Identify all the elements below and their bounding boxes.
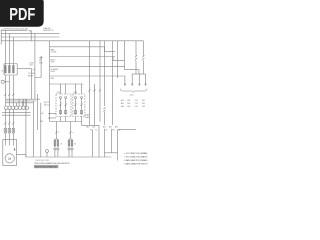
rung 3: [50, 65, 125, 67]
svg-text:B02: B02: [127, 103, 130, 105]
aux arrow stub 1: [49, 113, 56, 115]
feeder arrow 1 (from rung 4 elbow): [124, 76, 126, 84]
wire relay branch with up arrow: [35, 56, 41, 78]
wire v x112.5: [112, 41, 114, 125]
wire staircase z3: [125, 66, 139, 74]
svg-text:49: 49: [60, 144, 62, 146]
rung 1: [50, 46, 105, 48]
wire motor box link: [16, 155, 26, 157]
bus line L4 / control top rail: [1, 40, 143, 42]
node indicator lamp: [46, 150, 49, 153]
svg-text:KL: KL: [95, 130, 97, 132]
wire column A07: [92, 130, 94, 157]
svg-text:C01: C01: [135, 100, 138, 102]
relay 50/51 label: [30, 63, 34, 67]
svg-text:B03: B03: [127, 106, 130, 108]
brace: [120, 89, 147, 93]
svg-text:DEVICE 75: DEVICE 75: [43, 30, 54, 32]
motor enclosure box: [3, 140, 17, 166]
feeder arrow 3: [138, 74, 140, 84]
wire staircase z1: [105, 47, 116, 52]
contactor 1-49 contacts: [60, 97, 62, 99]
svg-text:B01: B01: [127, 100, 130, 102]
breaker pole C: [13, 66, 15, 73]
wire column KC: [104, 129, 106, 157]
column top labels: [90, 129, 121, 132]
aux device column text: [44, 101, 50, 106]
bus line L1: [1, 30, 31, 33]
feeder arrow 2: [131, 74, 133, 84]
feeder note text: [39, 57, 42, 64]
wire relay riser: [30, 69, 32, 100]
wire relay tick: [33, 69, 35, 71]
phase A to terminals: [4, 109, 6, 128]
phase A drop: [4, 30, 6, 65]
wire KA top link: [118, 129, 137, 131]
svg-text:52: 52: [1, 71, 3, 73]
svg-text:49: 49: [74, 144, 76, 146]
terminal labels row: [87, 126, 118, 129]
bus line L3: [1, 36, 59, 38]
svg-text:③ MAIN CAPACITOR (49MAIN): ③ MAIN CAPACITOR (49MAIN): [124, 159, 148, 162]
feeder table: [121, 99, 145, 108]
breaker 52 box: [4, 64, 17, 76]
wire feeder drop 1: [30, 30, 32, 41]
node LINE 44 label: [43, 28, 54, 32]
svg-text:4-16: 4-16: [40, 113, 43, 115]
terminal block A: [4, 128, 6, 133]
svg-text:CLOSE: CLOSE: [51, 52, 58, 54]
motor circle M: [5, 154, 14, 163]
heater pair 2: [68, 122, 76, 158]
wire v x117.5 upper: [117, 41, 119, 78]
wire staircase z2: [113, 57, 124, 61]
svg-text:④ MAIN CAPACITOR SWITCH: ④ MAIN CAPACITOR SWITCH: [124, 162, 149, 165]
svg-text:TO 4160V: TO 4160V: [28, 73, 36, 75]
contactor drops to bottom rail: [61, 117, 82, 122]
svg-text:① 49 CONTACTOR (49MAIN): ① 49 CONTACTOR (49MAIN): [124, 152, 148, 155]
CT wiring bundle: [6, 99, 40, 103]
CT lead vertical 3: [40, 103, 42, 157]
wire feeder drop 2 / relay feeder: [34, 33, 36, 99]
CT secondary lines: [2, 113, 31, 116]
svg-text:4-49: 4-49: [73, 92, 77, 94]
aux arrow stub 2: [49, 117, 56, 119]
wire v x143.3 with contact: [142, 41, 144, 74]
wire column KA: [117, 130, 119, 161]
heater pair 1: [54, 122, 62, 158]
CT circles row: [5, 106, 29, 109]
CT lead vertical 2: [32, 101, 34, 157]
svg-text:D03: D03: [142, 106, 145, 108]
phase A lower: [4, 75, 6, 106]
wire K bottom link: [105, 152, 118, 154]
phase B to terminals: [8, 109, 10, 128]
phase C drop: [12, 37, 14, 65]
svg-text:C03: C03: [135, 106, 138, 108]
PDF badge: [0, 0, 44, 27]
svg-text:4-16: 4-16: [40, 121, 43, 123]
rung labels: [51, 49, 59, 81]
CT bundle taps: [16, 99, 26, 106]
phase C lower: [12, 75, 14, 106]
contact slashes on columns: [89, 89, 101, 91]
wire PT tap: [4, 81, 9, 83]
svg-text:a: a: [58, 132, 59, 134]
phase C to terminals: [12, 109, 14, 128]
bus labels (tick text above top bus line): [2, 28, 28, 31]
phase B drop: [8, 33, 10, 65]
rung 4: [50, 75, 125, 77]
node PT circle: [1, 80, 4, 83]
wire aux vertical: [37, 94, 39, 130]
wire bottom rail with jog: [50, 122, 100, 158]
svg-text:D01: D01: [142, 100, 145, 102]
terminal block B: [8, 128, 10, 133]
svg-text:a: a: [72, 132, 73, 134]
contactor K1 drops: [61, 84, 82, 94]
contactor 1-49 dashed box: [56, 94, 71, 117]
svg-text:4-16: 4-16: [39, 57, 42, 59]
wire v x94.5: [94, 84, 96, 125]
svg-text:METER A-3 41MV: METER A-3 41MV: [36, 159, 50, 162]
CT leads to relays: vertical 1: [25, 99, 27, 157]
wire breaker to relay: [17, 68, 31, 70]
svg-text:M: M: [8, 157, 11, 161]
wire v x89.5: [89, 41, 91, 125]
wire v x104.5 with break: [104, 41, 106, 125]
svg-text:TYPICAL CONTROL SCHEMATIC FOR: TYPICAL CONTROL SCHEMATIC FOR A 4.16KV 2…: [34, 162, 70, 165]
svg-text:BUS: BUS: [39, 62, 42, 64]
left bus riser: [0, 30, 2, 45]
phase B lower: [8, 75, 10, 106]
wire column KB: [111, 129, 113, 153]
svg-text:PDF: PDF: [9, 4, 35, 24]
wire ground rail: [26, 156, 112, 158]
contact marks on phases: [4, 94, 14, 96]
svg-text:49M: 49M: [51, 78, 55, 80]
svg-text:4-16: 4-16: [130, 95, 134, 97]
svg-text:D02: D02: [142, 103, 145, 105]
svg-text:SWGR: SWGR: [28, 76, 34, 78]
svg-text:C02: C02: [135, 103, 138, 105]
wire v x100: [99, 41, 101, 122]
svg-text:WWW.ELECTRICAL-SCHEMATICS.NET: WWW.ELECTRICAL-SCHEMATICS.NET: [35, 166, 58, 169]
contactor side note: [85, 114, 89, 119]
breaker pole B: [9, 66, 11, 73]
legend notes: [124, 152, 149, 165]
terminal block C: [12, 128, 14, 133]
feeder arrow 4: [145, 74, 147, 84]
wire mid connector y84: [50, 83, 84, 85]
svg-text:1-49: 1-49: [57, 92, 61, 94]
svg-text:② 49 CONTACTOR (49AUX): ② 49 CONTACTOR (49AUX): [124, 156, 148, 159]
motor leads: [5, 133, 13, 146]
wire jog y74: [132, 73, 145, 75]
ladder left rail: [49, 41, 51, 122]
disconnect slashes: [4, 122, 14, 124]
wire v x124.7 short: [124, 41, 126, 67]
wire v x136 with contact: [135, 41, 137, 74]
breaker note text: [28, 73, 36, 77]
motor aux symbol: [14, 148, 16, 151]
breaker pole A: [5, 66, 7, 73]
caption highlighted line 2: [34, 165, 58, 168]
contactor 4-49 contacts: [75, 97, 77, 99]
svg-text:KB: KB: [112, 130, 114, 132]
rung 2: [50, 56, 116, 58]
bus line L2: [1, 32, 59, 34]
contactor 4-49 dashed box: [73, 94, 85, 117]
